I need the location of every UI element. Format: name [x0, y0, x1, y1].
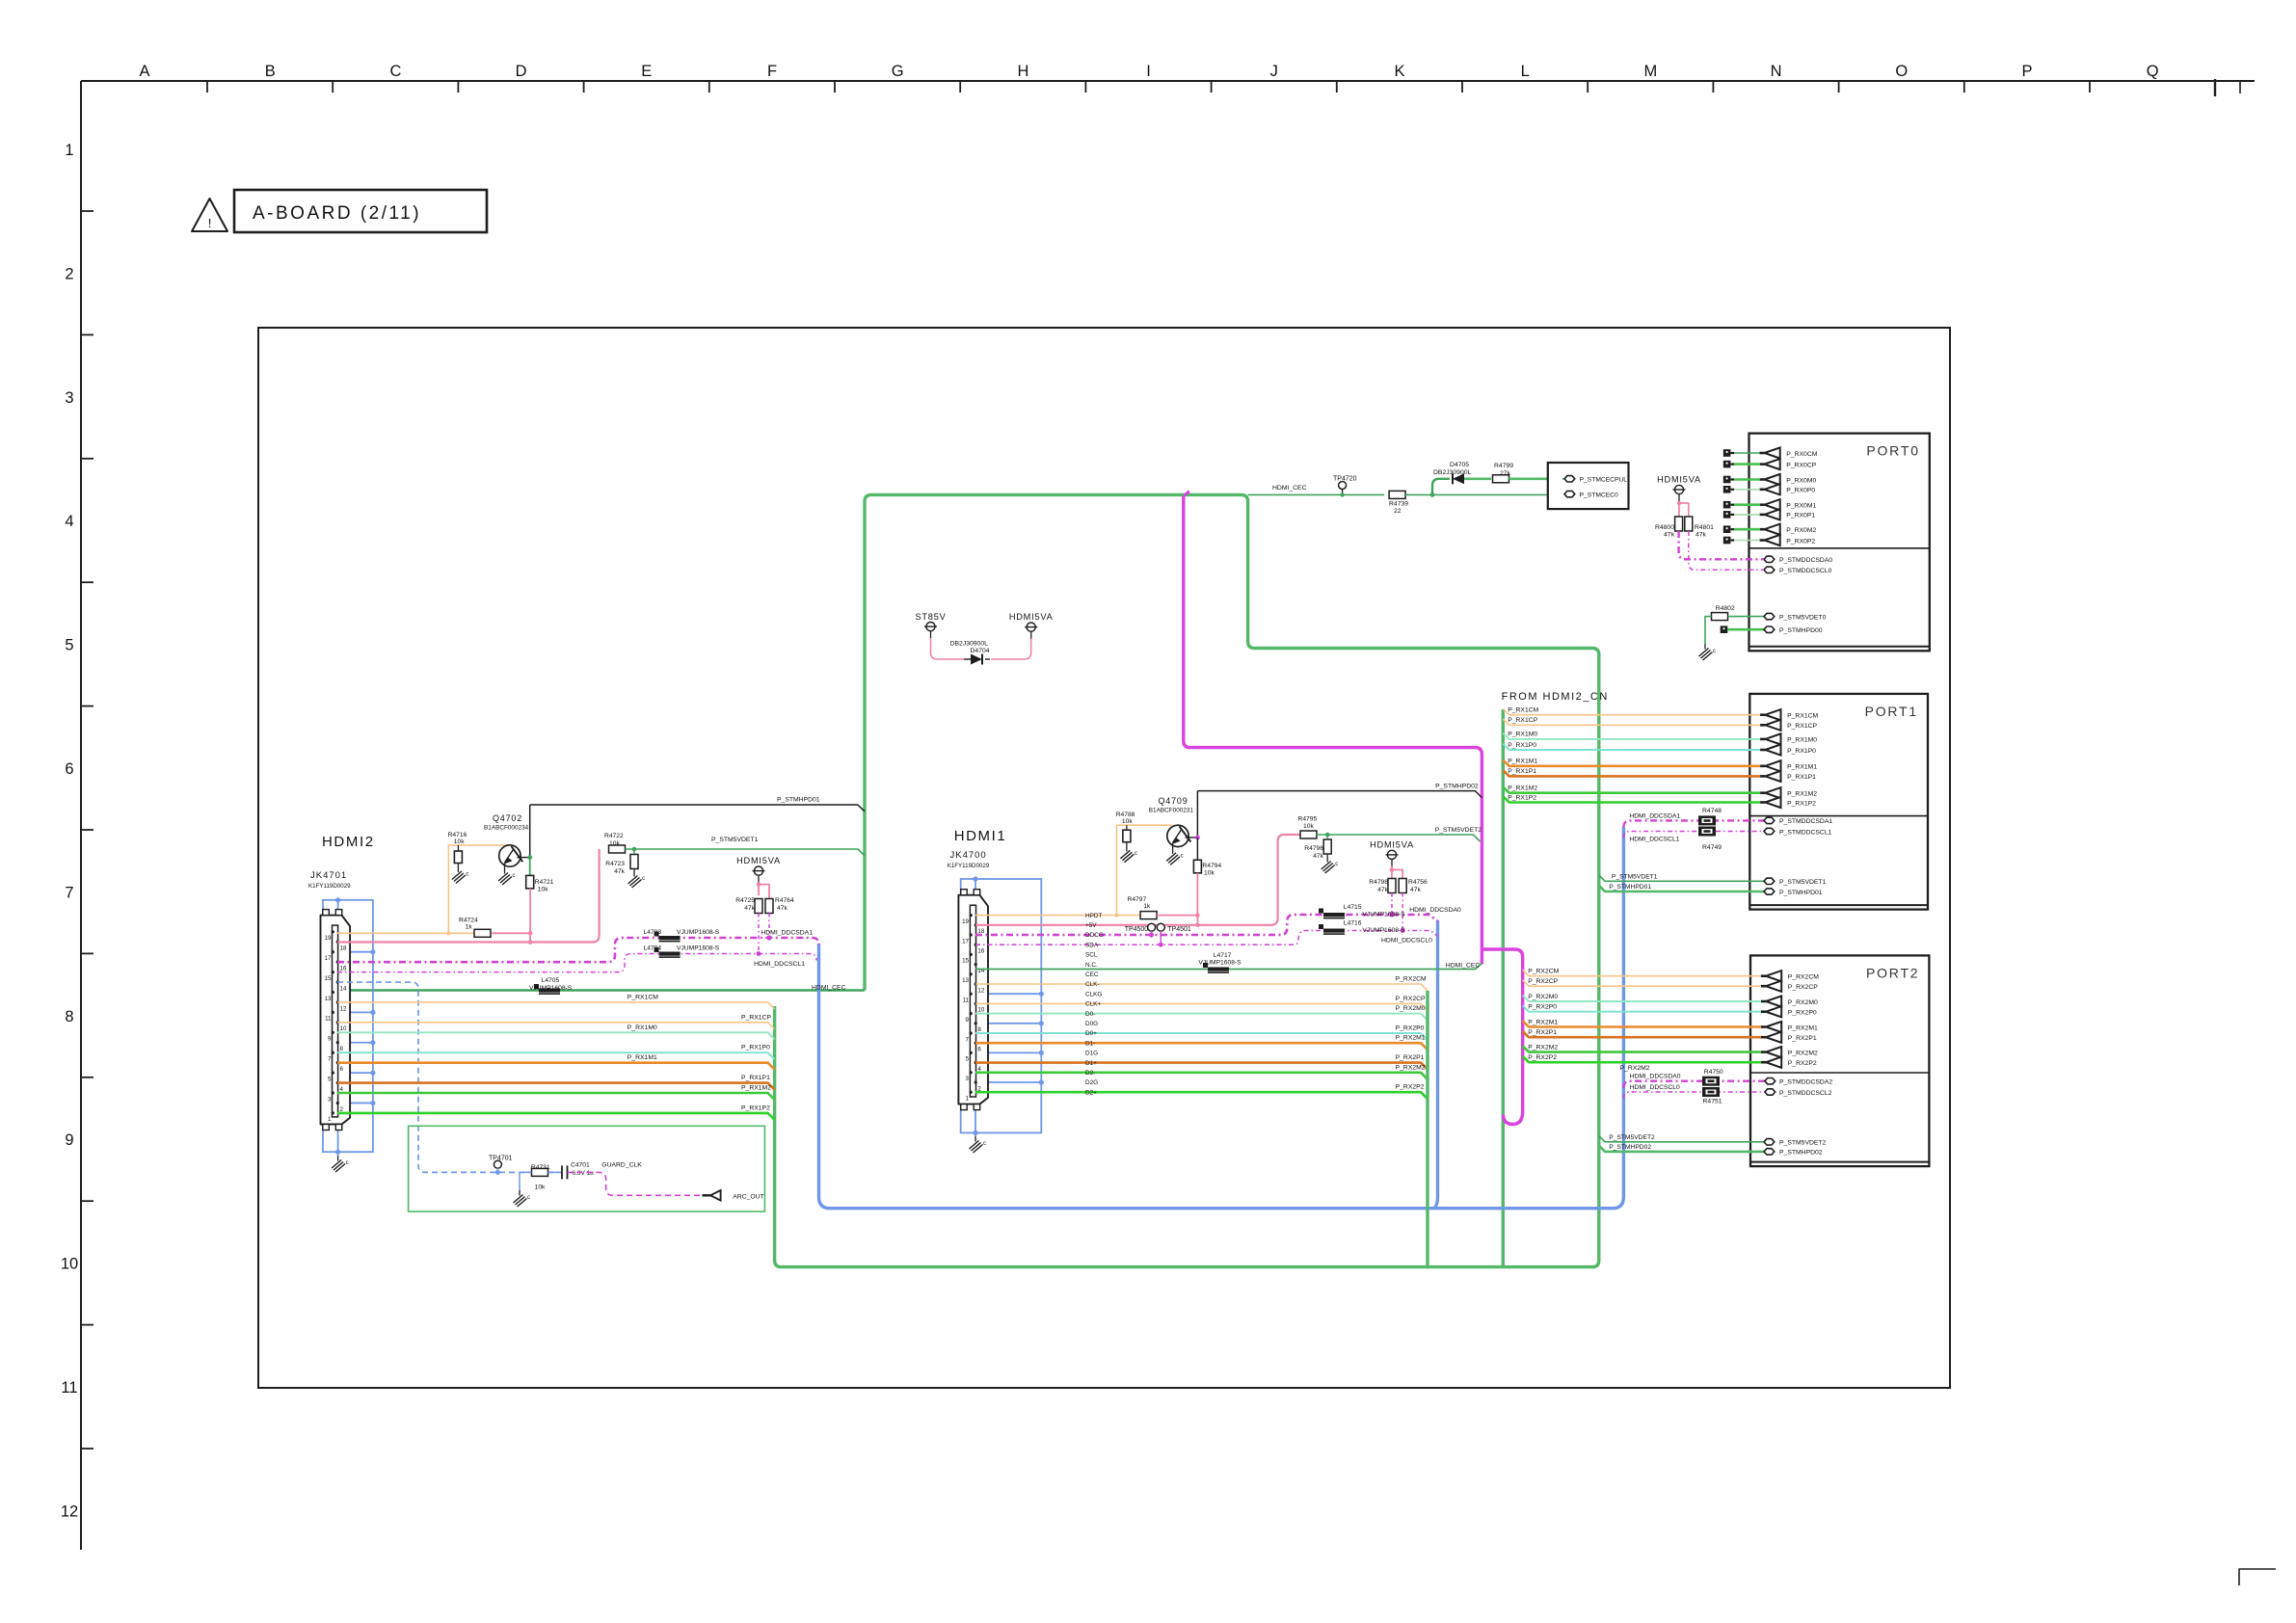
- svg-text:P_RX1M0: P_RX1M0: [627, 1024, 657, 1031]
- wire P_RX0M0 via: [1723, 476, 1731, 484]
- svg-text:P_STMHPD01: P_STMHPD01: [1609, 884, 1651, 891]
- pin P_RX2CM of PORT2: [1761, 974, 1766, 977]
- jumper L4704 VJUMP1608-S: [659, 952, 681, 956]
- wire P_RX2P0 from HDMI1: [975, 1033, 1428, 1040]
- svg-text:P_RX1CM: P_RX1CM: [1787, 713, 1818, 720]
- wire HDMI_DDCSCL0 dash-dot from pin16: [975, 931, 1438, 945]
- wire P_STMHPD02 into PORT2: [1599, 1146, 1764, 1152]
- svg-text:P_STM5VDET2: P_STM5VDET2: [1609, 1134, 1655, 1141]
- title: A-BOARD (2/11): [234, 190, 487, 232]
- svg-text:P_RX1P1: P_RX1P1: [1787, 774, 1816, 781]
- svg-text:6: 6: [977, 1047, 981, 1053]
- wire P_STM5VDET1 green: [626, 849, 866, 856]
- resistor R4749: [1698, 827, 1716, 837]
- resistor R4751: [1702, 1087, 1720, 1097]
- svg-text:6.3V 1u: 6.3V 1u: [573, 1170, 594, 1177]
- warning triangle: [192, 199, 227, 231]
- svg-text:P_RX1CP: P_RX1CP: [1508, 717, 1537, 724]
- svg-text:TP4720: TP4720: [1333, 476, 1357, 483]
- connector JK4701 HDMI2 blue shield box: [323, 900, 373, 1152]
- svg-text:P_RX1M0: P_RX1M0: [1508, 732, 1537, 738]
- wire P_STM5VDET0: [1705, 617, 1712, 644]
- svg-text:8: 8: [65, 1008, 73, 1025]
- svg-text:P_RX1M2: P_RX1M2: [1787, 791, 1817, 798]
- svg-text:P_RX1M2: P_RX1M2: [1508, 785, 1537, 792]
- svg-text:P_RX1P0: P_RX1P0: [1508, 742, 1536, 749]
- wire RX2 bundle vertical: [1426, 991, 1428, 1267]
- svg-text:HDMI_CEC: HDMI_CEC: [812, 985, 846, 992]
- svg-text:R4794: R4794: [1202, 863, 1221, 869]
- svg-text:R4749: R4749: [1702, 844, 1722, 851]
- svg-text:CLK-: CLK-: [1085, 981, 1100, 988]
- ground below JK4701: [337, 1152, 339, 1156]
- pin P_STMDDCSDA2 of PORT2: [1765, 1078, 1775, 1084]
- pin P_RX1CP of PORT1: [1760, 724, 1765, 727]
- svg-text:c: c: [527, 1195, 530, 1201]
- wire P_RX2P1 from HDMI1: [975, 1063, 1428, 1070]
- svg-text:HDMI2: HDMI2: [322, 834, 375, 850]
- wire P_RX0CM via: [1723, 449, 1731, 457]
- wire CEC pullup branch: [1432, 479, 1445, 495]
- ground Q4702 emitter: [504, 868, 506, 874]
- svg-text:P_STMHPD02: P_STMHPD02: [1435, 784, 1479, 790]
- svg-text:D1-: D1-: [1085, 1040, 1095, 1047]
- svg-text:12: 12: [977, 987, 984, 994]
- pin P_RX0P1 of PORT0: [1759, 514, 1764, 517]
- svg-text:P_STMHPD02: P_STMHPD02: [1779, 1150, 1823, 1157]
- wire P_RX0P0 via: [1723, 486, 1731, 493]
- wire P_RX1M2 from HDMI2: [337, 1093, 775, 1100]
- svg-text:R4795: R4795: [1298, 816, 1318, 823]
- svg-text:PORT2: PORT2: [1866, 965, 1919, 980]
- svg-text:7: 7: [966, 1036, 970, 1043]
- pin P_RX1P2 of PORT1: [1760, 801, 1765, 804]
- resistor R4748: [1698, 815, 1716, 825]
- svg-text:D: D: [516, 63, 527, 80]
- wire HDMI_DDCSDA1 dash-dot from pin16: [337, 938, 819, 962]
- svg-text:9: 9: [65, 1131, 73, 1149]
- svg-text:47k: 47k: [1313, 853, 1323, 860]
- svg-text:G: G: [892, 63, 904, 80]
- wire HDMI_DDCSDA0 tap to R4750: [1623, 1081, 1765, 1088]
- wire P_RX2CM from HDMI1: [975, 984, 1428, 991]
- wire pink to R4725/R4764: [759, 883, 769, 899]
- svg-text:HDMI1: HDMI1: [954, 828, 1007, 844]
- svg-text:P_STMDDCSDA2: P_STMDDCSDA2: [1779, 1079, 1832, 1086]
- svg-text:10: 10: [340, 1025, 347, 1032]
- svg-text:C4701: C4701: [571, 1162, 590, 1169]
- svg-text:P_RX0P0: P_RX0P0: [1786, 488, 1815, 494]
- svg-text:9: 9: [328, 1036, 332, 1043]
- pin P_RX2M0 of PORT2: [1761, 1000, 1766, 1003]
- wire P_RX2CM stub: [1523, 970, 1761, 975]
- svg-text:JK4701: JK4701: [310, 870, 347, 881]
- wire P_RX1M2 stub: [1503, 786, 1760, 792]
- svg-text:c: c: [1335, 862, 1338, 867]
- svg-text:10k: 10k: [609, 840, 620, 847]
- svg-text:R4731: R4731: [531, 1164, 550, 1171]
- svg-text:47k: 47k: [1695, 532, 1707, 539]
- power HDMI5VA (HDMI2 pullups): [754, 866, 762, 875]
- svg-text:P_RX2P0: P_RX2P0: [1396, 1025, 1425, 1032]
- svg-text:1: 1: [966, 1096, 970, 1103]
- svg-text:DB2J30900L: DB2J30900L: [950, 641, 989, 648]
- svg-text:TP4701: TP4701: [489, 1156, 513, 1162]
- svg-text:2: 2: [65, 265, 73, 282]
- connector JK4700 body: [958, 895, 988, 1104]
- wire thin green CEC segment HDMI2 row with junction to thick bus: [337, 989, 865, 991]
- resistor R4798 47k: [1388, 879, 1396, 893]
- svg-text:c: c: [1181, 853, 1184, 859]
- ground under R4731: [519, 1190, 521, 1196]
- pin P_STMHPD01 of PORT1: [1764, 889, 1775, 894]
- pin P_RX2M2 of PORT2: [1761, 1051, 1766, 1053]
- wire pink +5V row: [975, 924, 1197, 926]
- svg-text:P_RX0M2: P_RX0M2: [1786, 527, 1816, 534]
- svg-text:M: M: [1644, 63, 1658, 80]
- svg-text:CLKG: CLKG: [1085, 991, 1102, 998]
- svg-text:P_RX2M1: P_RX2M1: [1788, 1024, 1818, 1031]
- pin P_RX1M0 of PORT1: [1760, 738, 1765, 741]
- svg-text:P_RX1P1: P_RX1P1: [1508, 768, 1536, 775]
- resistor R4799 27k: [1493, 475, 1509, 483]
- svg-text:P_RX2M2: P_RX2M2: [1396, 1064, 1426, 1071]
- wire P_RX2M2 stub: [1523, 1046, 1761, 1051]
- svg-text:P_RX0M0: P_RX0M0: [1786, 477, 1816, 484]
- jumper L4705 on CEC: [539, 989, 560, 993]
- wire P_RX0M2 via: [1723, 525, 1731, 533]
- svg-text:P_RX2M2: P_RX2M2: [1788, 1050, 1818, 1056]
- wire blue DDC bus HDMI1 vertical: [1434, 920, 1438, 1209]
- jumper L4703 VJUMP1608-S: [659, 936, 681, 940]
- svg-text:P_STM5VDET2: P_STM5VDET2: [1435, 827, 1482, 834]
- svg-text:19: 19: [325, 935, 332, 942]
- svg-text:H: H: [1017, 63, 1028, 80]
- wire HDMI_DDCSCL1 dash-dot from pin15: [337, 954, 816, 972]
- svg-text:SCL: SCL: [1085, 952, 1098, 959]
- wire P_RX1P0 from HDMI2: [337, 1052, 775, 1059]
- svg-text:P_STMCECPUL: P_STMCECPUL: [1580, 477, 1628, 484]
- svg-text:P_RX1CM: P_RX1CM: [627, 994, 658, 1000]
- pin P_STMHPD00 of PORT0: [1764, 626, 1775, 632]
- svg-text:E: E: [641, 63, 652, 80]
- svg-text:P_RX2M2: P_RX2M2: [1528, 1044, 1558, 1051]
- svg-text:18: 18: [340, 945, 347, 952]
- svg-text:P_RX1M2: P_RX1M2: [741, 1085, 771, 1092]
- resistor R4731 10k: [532, 1168, 548, 1176]
- svg-text:D0-: D0-: [1085, 1011, 1095, 1018]
- IC block PORT1: [1749, 694, 1928, 910]
- svg-text:P_STM5VDET0: P_STM5VDET0: [1779, 614, 1827, 621]
- svg-text:JK4700: JK4700: [950, 850, 987, 861]
- svg-text:12: 12: [61, 1503, 78, 1520]
- svg-text:P_RX2P2: P_RX2P2: [1788, 1060, 1817, 1067]
- svg-text:P_RX1CM: P_RX1CM: [1508, 707, 1538, 714]
- svg-text:K: K: [1394, 63, 1404, 80]
- pin P_RX0CP of PORT0: [1759, 463, 1764, 466]
- svg-text:ST85V: ST85V: [915, 612, 946, 622]
- test point TP4720: [1339, 482, 1347, 490]
- svg-text:P_STMDDCSDA0: P_STMDDCSDA0: [1779, 557, 1832, 564]
- svg-text:L4717: L4717: [1214, 952, 1232, 959]
- svg-text:P_RX2P1: P_RX2P1: [1788, 1035, 1817, 1042]
- svg-text:Q: Q: [2147, 63, 2159, 80]
- svg-text:Q4702: Q4702: [493, 813, 522, 823]
- svg-text:N: N: [1771, 63, 1782, 80]
- svg-text:27k: 27k: [1500, 470, 1511, 477]
- wire HDMI_DDCSCL1 tap to R4749: [1623, 832, 1764, 838]
- svg-text:L4716: L4716: [1344, 919, 1362, 926]
- svg-text:R4723: R4723: [605, 861, 625, 867]
- wire P_RX2CP stub: [1523, 980, 1761, 986]
- svg-text:L: L: [1521, 63, 1530, 80]
- svg-text:P_RX0CM: P_RX0CM: [1786, 451, 1817, 458]
- svg-text:47k: 47k: [1410, 887, 1421, 893]
- svg-text:GUARD_CLK: GUARD_CLK: [601, 1162, 642, 1169]
- svg-text:VJUMP1608-S: VJUMP1608-S: [1362, 927, 1405, 934]
- svg-text:R4748: R4748: [1702, 808, 1722, 814]
- wire HDMI1 CEC thin green to magenta bus: [975, 963, 1482, 969]
- ARC_OUT output triangle: [703, 1194, 711, 1196]
- svg-text:16: 16: [340, 965, 347, 971]
- pin P_STM5VDET1 of PORT1: [1764, 878, 1775, 884]
- svg-text:R4725: R4725: [735, 897, 755, 904]
- wire R4798 to HDMI_DDCSDA0: [1391, 893, 1393, 916]
- wire P_RX1M1 stub: [1503, 760, 1760, 766]
- svg-text:N.C.: N.C.: [1085, 962, 1098, 969]
- wire P_RX1P1 stub: [1503, 770, 1760, 776]
- svg-text:P_RX1P1: P_RX1P1: [741, 1075, 770, 1081]
- wire HDMI_CEC main green bus (HDMI2 pin13 to right): [775, 494, 1599, 1266]
- svg-text:6: 6: [65, 760, 73, 778]
- svg-text:TP4500: TP4500: [1125, 926, 1149, 933]
- svg-text:11: 11: [61, 1379, 77, 1397]
- svg-text:D0G: D0G: [1085, 1021, 1098, 1027]
- pin P_RX0M0 of PORT0: [1759, 478, 1764, 481]
- svg-text:10k: 10k: [1204, 870, 1215, 877]
- test point TP4501: [1157, 923, 1164, 931]
- svg-text:L4704: L4704: [644, 945, 662, 952]
- svg-text:D2G: D2G: [1085, 1079, 1098, 1086]
- wire P_RX0M1 via: [1723, 501, 1731, 509]
- svg-text:47k: 47k: [1377, 887, 1388, 893]
- svg-text:Q4709: Q4709: [1159, 796, 1188, 806]
- svg-text:P_RX2CM: P_RX2CM: [1396, 976, 1427, 983]
- pin P_STM5VDET2 of PORT2: [1764, 1139, 1775, 1145]
- pin P_RX0M2 of PORT0: [1759, 528, 1764, 531]
- power HDMI5VA (PORT0 pullups): [1674, 485, 1683, 493]
- svg-text:P_RX2M0: P_RX2M0: [1528, 994, 1558, 1000]
- jumper L4717 on HDMI1 CEC: [1208, 968, 1229, 971]
- svg-text:R4799: R4799: [1494, 463, 1513, 469]
- svg-text:HDMI5VA: HDMI5VA: [1009, 612, 1054, 622]
- IC block PORT0: [1749, 434, 1930, 652]
- resistor R4801 47k: [1685, 517, 1693, 531]
- wire P_STM5VDET2 green: [1317, 835, 1480, 841]
- svg-text:DDCG: DDCG: [1085, 932, 1104, 939]
- wire P_STMHPD01 black to green bus: [530, 805, 865, 811]
- svg-text:P: P: [2021, 63, 2032, 80]
- wire magenta dashed to ARC_OUT: [568, 1172, 706, 1195]
- svg-text:R4724: R4724: [459, 918, 478, 924]
- resistor R4721 10k: [529, 858, 531, 876]
- svg-text:P_RX2P2: P_RX2P2: [1396, 1084, 1425, 1091]
- svg-text:R4788: R4788: [1116, 811, 1135, 818]
- wire HDMI_DDCSDA0 dash-dot from pin17: [975, 915, 1438, 935]
- resistor R4722 10k: [609, 845, 626, 853]
- svg-text:A-BOARD (2/11): A-BOARD (2/11): [253, 203, 421, 224]
- svg-text:J: J: [1270, 63, 1278, 80]
- svg-text:L4703: L4703: [644, 929, 662, 936]
- svg-text:D4704: D4704: [971, 648, 990, 654]
- svg-text:1k: 1k: [1143, 903, 1151, 910]
- svg-text:C: C: [389, 63, 401, 80]
- svg-text:P_STM5VDET1: P_STM5VDET1: [1779, 879, 1827, 886]
- wire blue DDC bus bottom: [819, 828, 1624, 1209]
- svg-text:P_RX1M0: P_RX1M0: [1787, 737, 1817, 744]
- svg-text:8: 8: [340, 1046, 344, 1052]
- svg-text:3: 3: [65, 389, 73, 407]
- power HDMI5VA (HDMI1 pullups): [1387, 850, 1396, 859]
- svg-text:P_RX2M1: P_RX2M1: [1396, 1035, 1426, 1042]
- svg-text:P_RX2P0: P_RX2P0: [1528, 1004, 1557, 1011]
- wire P_RX2M1 stub: [1523, 1021, 1761, 1026]
- svg-text:B: B: [265, 63, 276, 80]
- svg-text:P_STMHPD00: P_STMHPD00: [1779, 627, 1823, 634]
- svg-text:L4705: L4705: [542, 977, 560, 984]
- svg-text:R4756: R4756: [1408, 879, 1428, 886]
- svg-text:5: 5: [966, 1056, 970, 1063]
- svg-text:VJUMP1608-S: VJUMP1608-S: [1362, 912, 1405, 918]
- svg-text:R4802: R4802: [1716, 605, 1735, 612]
- wire P_RX2P2 stub: [1523, 1056, 1761, 1062]
- resistor R4750: [1702, 1077, 1720, 1086]
- svg-text:HDMI_DDCSCL1: HDMI_DDCSCL1: [754, 961, 805, 968]
- svg-text:D2-: D2-: [1085, 1070, 1095, 1077]
- wire P_RX2P0 stub: [1523, 1005, 1761, 1011]
- wire P_RX1M1 from HDMI2: [337, 1063, 775, 1070]
- svg-text:15: 15: [962, 958, 969, 965]
- wire P_RX1P0 stub: [1503, 744, 1760, 750]
- capacitor C4701: [548, 1171, 563, 1173]
- svg-text:HDMI_DDCSDA0: HDMI_DDCSDA0: [1409, 907, 1461, 914]
- svg-text:3: 3: [328, 1096, 332, 1103]
- diode D4704 DB2J30900L: [964, 658, 971, 660]
- svg-text:R4716: R4716: [448, 832, 467, 838]
- svg-text:P_RX1P2: P_RX1P2: [741, 1104, 770, 1111]
- svg-text:c: c: [642, 876, 645, 882]
- svg-text:CEC: CEC: [1085, 971, 1099, 978]
- wire P_RX0P2 via: [1723, 537, 1731, 545]
- svg-text:A: A: [139, 63, 149, 80]
- svg-text:47k: 47k: [614, 868, 625, 875]
- wire P_RX1CP from HDMI2: [337, 1023, 775, 1029]
- pin P_STMDDCSCL2 of PORT2: [1765, 1089, 1775, 1095]
- svg-text:47k: 47k: [1664, 532, 1675, 539]
- svg-text:7: 7: [328, 1056, 332, 1063]
- svg-text:P_RX1CP: P_RX1CP: [1787, 723, 1817, 730]
- wire P_RX1P2 from HDMI2: [337, 1113, 775, 1120]
- svg-text:D4705: D4705: [1450, 462, 1469, 468]
- test point TP4701: [494, 1160, 501, 1168]
- svg-text:R4721: R4721: [535, 879, 554, 886]
- wire P_STMDDCSCL0 dash: [1689, 531, 1764, 570]
- svg-text:22: 22: [1394, 508, 1402, 515]
- svg-text:c: c: [346, 1160, 349, 1166]
- svg-text:D0+: D0+: [1085, 1030, 1097, 1037]
- wire magenta bus branch to PORT2 stubs: [1482, 949, 1522, 1125]
- resistor R4716 10k: [457, 845, 459, 851]
- jumper L4716 VJUMP1608-S: [1323, 929, 1345, 933]
- svg-text:P_RX2M1: P_RX2M1: [1528, 1019, 1558, 1025]
- wire P_RX2M0 stub: [1523, 996, 1761, 1001]
- pin P_STMDDCSDA1 of PORT1: [1764, 817, 1775, 823]
- svg-text:1: 1: [65, 142, 73, 159]
- wire P_RX1P2 stub: [1503, 796, 1760, 802]
- svg-text:VJUMP1608-S: VJUMP1608-S: [677, 945, 720, 952]
- wire P_STMHPD02 black to magenta bus: [1197, 791, 1482, 798]
- svg-text:5: 5: [328, 1076, 332, 1082]
- pin P_RX1M1 of PORT1: [1760, 764, 1765, 767]
- svg-text:P_STMDDCSCL1: P_STMDDCSCL1: [1779, 829, 1832, 836]
- wire thin green CEC to TP4720/R4739: [1248, 493, 1384, 495]
- svg-text:6: 6: [340, 1066, 344, 1073]
- svg-text:R4764: R4764: [775, 897, 794, 904]
- svg-text:16: 16: [977, 948, 984, 955]
- svg-text:47k: 47k: [777, 905, 788, 912]
- wire P_RX1CM stub: [1503, 708, 1760, 714]
- pin P_RX1CM of PORT1: [1760, 713, 1765, 716]
- svg-text:HDMI5VA: HDMI5VA: [736, 856, 781, 865]
- svg-text:P_RX2CP: P_RX2CP: [1396, 996, 1426, 1002]
- svg-text:VJUMP1608-S: VJUMP1608-S: [1198, 960, 1241, 967]
- connector JK4700 HDMI1 blue shield box: [961, 879, 1042, 1132]
- svg-text:K1FY119D0029: K1FY119D0029: [308, 883, 351, 890]
- resistor R4800 47k: [1675, 517, 1683, 531]
- power ST85V: [926, 623, 935, 631]
- svg-text:c: c: [1135, 851, 1137, 857]
- wire HDMI2 pin19 orange to R4716/Q4702 base: [337, 932, 474, 934]
- svg-text:K1FY119D0029: K1FY119D0029: [948, 863, 990, 869]
- pin P_RX1P1 of PORT1: [1760, 775, 1765, 778]
- pin P_RX0CM of PORT0: [1759, 452, 1764, 455]
- pin P_STMDDCSDA0 of PORT0: [1764, 556, 1775, 562]
- svg-text:R4739: R4739: [1389, 501, 1408, 508]
- svg-text:HDMI5VA: HDMI5VA: [1370, 840, 1414, 850]
- svg-text:c: c: [983, 1141, 986, 1147]
- wire pink ST85V to HDMI5VA via D4704: [931, 638, 965, 659]
- svg-text:P_RX2P1: P_RX2P1: [1528, 1029, 1557, 1036]
- pin P_RX0P0 of PORT0: [1759, 488, 1764, 491]
- wire P_RX1CM from HDMI2: [337, 1002, 775, 1009]
- svg-text:P_RX2P0: P_RX2P0: [1788, 1010, 1817, 1017]
- svg-text:HPDT: HPDT: [1085, 913, 1102, 919]
- svg-text:P_RX1M1: P_RX1M1: [627, 1054, 657, 1061]
- svg-text:P_STM5VDET1: P_STM5VDET1: [711, 837, 759, 843]
- svg-text:c: c: [466, 872, 468, 878]
- svg-text:P_RX2P1: P_RX2P1: [1396, 1054, 1425, 1061]
- svg-text:P_RX1CP: P_RX1CP: [741, 1014, 771, 1021]
- svg-text:P_RX2M2: P_RX2M2: [1620, 1065, 1650, 1072]
- wire P_RX2M0 from HDMI1: [975, 1014, 1428, 1021]
- wire P_RX1M0 stub: [1503, 733, 1760, 739]
- svg-text:SDA: SDA: [1085, 942, 1099, 948]
- svg-text:D1+: D1+: [1085, 1060, 1097, 1067]
- svg-text:B1ABCF000234: B1ABCF000234: [484, 825, 529, 832]
- pin P_RX2P1 of PORT2: [1761, 1036, 1766, 1039]
- wire blue dashed pin14 to guard area: [337, 982, 559, 1172]
- svg-text:10k: 10k: [1122, 818, 1133, 825]
